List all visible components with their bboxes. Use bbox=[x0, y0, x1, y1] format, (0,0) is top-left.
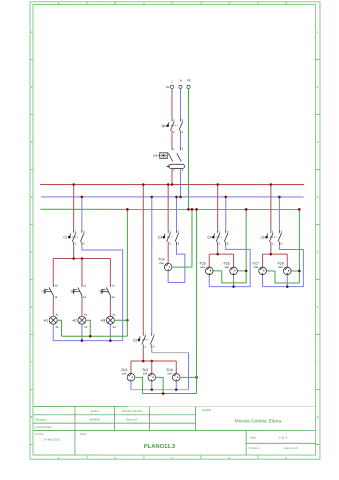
wire C3 to TC4 bbox=[167, 245, 169, 263]
junction N tap C4 bbox=[224, 196, 227, 199]
feed bar C5 group bbox=[263, 253, 288, 255]
junction L tap C5 bbox=[270, 183, 273, 186]
svg-text:Elena M.: Elena M. bbox=[126, 417, 138, 421]
svg-text:C5: C5 bbox=[261, 236, 265, 240]
junction C1 feed on bar bbox=[72, 257, 75, 260]
wire PE -H2 bbox=[86, 320, 90, 336]
wire PE bus down to TC group bbox=[196, 209, 198, 393]
socket outlet -TC7 bbox=[252, 262, 266, 275]
svg-text:Editado: Editado bbox=[202, 409, 212, 412]
junction N TC3 bbox=[175, 388, 178, 391]
svg-text:A: A bbox=[58, 1, 60, 5]
socket outlet -TC2 bbox=[141, 368, 155, 381]
junction PE tap TC4 bbox=[191, 208, 194, 211]
wire N right socket bbox=[286, 275, 288, 287]
lamp -H1 bbox=[43, 314, 59, 330]
wire N left socket bbox=[262, 275, 264, 287]
svg-text:PE: PE bbox=[187, 80, 191, 83]
junction PE tap C5 bbox=[298, 208, 301, 211]
wire bar to -S3 bbox=[109, 259, 111, 284]
switch C1 bbox=[63, 230, 85, 246]
wire L from terminal to Q1 bbox=[171, 88, 173, 118]
svg-text:16A: 16A bbox=[200, 266, 205, 269]
svg-text:Archivo:: Archivo: bbox=[249, 446, 260, 450]
switch Q1 bbox=[162, 118, 184, 134]
svg-text:B: B bbox=[114, 456, 116, 460]
svg-text:X1: X1 bbox=[113, 314, 117, 317]
lamp N collector bbox=[53, 340, 122, 342]
neutral bus N bbox=[41, 196, 304, 198]
svg-text:Morata Gomila, Elena: Morata Gomila, Elena bbox=[235, 419, 282, 425]
lamp -H2 bbox=[72, 314, 88, 330]
svg-text:X2: X2 bbox=[113, 326, 117, 329]
svg-text:2 de 3: 2 de 3 bbox=[279, 436, 287, 440]
junction N tap C1 bbox=[81, 196, 84, 199]
wire bar to -S1 bbox=[52, 259, 54, 284]
switch C3 bbox=[158, 230, 180, 246]
wire L bus to C2 bbox=[142, 185, 144, 333]
svg-text:16A: 16A bbox=[225, 266, 230, 269]
terminal strip -X1 (L N PE) bbox=[165, 80, 190, 90]
wire N -TC3 bbox=[175, 381, 177, 390]
wire N bus to C5 bbox=[278, 197, 280, 230]
svg-text:-TC1: -TC1 bbox=[120, 368, 127, 372]
wire N C4 return bbox=[209, 245, 250, 287]
svg-text:N: N bbox=[180, 80, 182, 83]
circuit breaker F2 bbox=[154, 147, 185, 172]
wire N bus to C2 bbox=[151, 197, 153, 333]
wire N -H3 to return bbox=[109, 324, 111, 340]
svg-text:plano 11.3: plano 11.3 bbox=[284, 446, 298, 450]
junction N right socket bbox=[286, 285, 289, 288]
wire bar to -TC1 bbox=[130, 361, 132, 374]
wire N bus to C3 bbox=[175, 197, 177, 230]
wire N C5 return bbox=[263, 245, 304, 287]
wire C4 to feed bar bbox=[217, 245, 219, 254]
wire PE right socket bbox=[237, 270, 246, 272]
wire N bus to C4 bbox=[225, 197, 227, 230]
socket outlet -TC4 bbox=[157, 258, 171, 271]
wire N -TC2 bbox=[151, 381, 153, 390]
svg-text:-S3: -S3 bbox=[98, 289, 103, 293]
wire C2 to socket feed bar bbox=[142, 348, 144, 361]
junction L tap C3 bbox=[167, 183, 170, 186]
switch C2 bbox=[133, 333, 155, 349]
lamp PE collector bbox=[62, 335, 128, 337]
junction PE tap C4 bbox=[245, 208, 248, 211]
wire N right socket bbox=[233, 275, 235, 287]
junction C5 feed bbox=[270, 253, 273, 256]
svg-text:Dibujado: Dibujado bbox=[35, 417, 47, 421]
wire PE -H3 bbox=[114, 319, 127, 321]
switch C5 bbox=[261, 230, 283, 246]
svg-text:Fecha: Fecha bbox=[35, 432, 43, 436]
PE bus bbox=[40, 208, 299, 210]
svg-text:X1: X1 bbox=[55, 314, 59, 317]
svg-text:C: C bbox=[171, 456, 173, 460]
wire N from terminal to Q1 bbox=[179, 88, 181, 118]
title block bbox=[33, 406, 316, 455]
feed bar C4 group bbox=[209, 253, 233, 255]
svg-text:C1: C1 bbox=[63, 236, 67, 240]
junction N TC2 bbox=[150, 388, 153, 391]
wire PE left socket bbox=[266, 270, 275, 272]
wire PE bus down bbox=[222, 209, 246, 283]
wire L bus to C3 bbox=[167, 185, 169, 230]
svg-text:-X1: -X1 bbox=[165, 86, 170, 89]
svg-text:16A: 16A bbox=[278, 266, 283, 269]
junction PE H3 on riser bbox=[126, 319, 129, 322]
wire PE TC4 bbox=[172, 209, 192, 267]
junction PE TC3 bbox=[195, 376, 198, 379]
junction L tap C2 bbox=[142, 183, 145, 186]
svg-text:-H3: -H3 bbox=[100, 318, 105, 322]
svg-text:Comprobado: Comprobado bbox=[35, 425, 52, 429]
wire bar to -TC3 bbox=[175, 361, 177, 374]
svg-text:16A: 16A bbox=[167, 372, 172, 375]
wire feed to left socket bbox=[262, 254, 264, 267]
svg-text:A: A bbox=[57, 456, 59, 460]
junction N tap C3 bbox=[175, 196, 178, 199]
socket feed bar TC1-TC3 bbox=[131, 360, 176, 362]
wire N Q1 to F2 bbox=[179, 134, 181, 147]
PE bottom collector TC group bbox=[143, 393, 197, 395]
svg-text:Título: Título bbox=[79, 432, 87, 436]
switch -S1 bbox=[41, 284, 58, 299]
junction PE right socket bbox=[298, 270, 301, 273]
wire N down right side bbox=[188, 353, 190, 390]
wire PE -H1 bbox=[57, 320, 61, 336]
wire N C3 to TC4 bbox=[168, 245, 185, 283]
svg-text:Nombre Firmas: Nombre Firmas bbox=[122, 409, 142, 413]
junction N H2 bbox=[81, 339, 84, 342]
svg-text:PLANO11.3: PLANO11.3 bbox=[144, 443, 176, 450]
socket outlet -TC1 bbox=[120, 368, 134, 381]
wire bar to -S2 bbox=[81, 259, 83, 284]
junction L tap C4 bbox=[216, 183, 219, 186]
svg-text:24/04/20: 24/04/20 bbox=[89, 417, 101, 421]
wire L F2 to phase bus bbox=[171, 169, 173, 185]
svg-text:-H2: -H2 bbox=[72, 318, 77, 322]
lamp -H3 bbox=[100, 314, 116, 330]
wire -S2 to -H2 bbox=[81, 299, 83, 316]
wire L bus to C1 bbox=[73, 185, 75, 230]
switch -S2 bbox=[70, 284, 87, 299]
svg-text:Núm:: Núm: bbox=[250, 436, 257, 440]
junction N tap C2 bbox=[150, 196, 153, 199]
svg-text:B: B bbox=[115, 1, 117, 5]
wire N -H2 to return bbox=[81, 324, 83, 340]
wire N -H1 to return bbox=[52, 324, 54, 340]
junction supply N on bus bbox=[179, 196, 182, 199]
svg-text:D: D bbox=[228, 1, 230, 5]
junction PE TC2 bottom bbox=[162, 392, 165, 395]
junction PE right socket bbox=[245, 270, 248, 273]
svg-text:16A: 16A bbox=[143, 372, 148, 375]
junction N H3 bbox=[109, 339, 112, 342]
wire N -TC1 bbox=[130, 381, 132, 390]
wire N bus to C1 bbox=[81, 197, 83, 230]
junction PE tap lamps bbox=[126, 208, 129, 211]
wire PE TC1 bbox=[135, 377, 143, 393]
wire feed to right socket bbox=[233, 254, 235, 267]
socket outlet -TC5 bbox=[199, 262, 213, 275]
svg-text:16A: 16A bbox=[254, 266, 259, 269]
svg-text:F2: F2 bbox=[154, 154, 158, 158]
lamp feed bar bbox=[53, 258, 110, 260]
svg-text:25A: 25A bbox=[159, 262, 164, 265]
svg-text:X1: X1 bbox=[84, 314, 88, 317]
wire L bus to C4 bbox=[217, 185, 219, 230]
wire N left socket bbox=[208, 275, 210, 287]
wire PE right socket bbox=[291, 270, 299, 272]
wire PE left socket bbox=[213, 270, 222, 272]
svg-text:-H1: -H1 bbox=[43, 318, 48, 322]
wire PE from terminal to PE bus bbox=[187, 88, 189, 209]
wire N link across (gray) bbox=[152, 352, 189, 354]
junction N tap C5 bbox=[278, 196, 281, 199]
wire L bus to C5 bbox=[270, 185, 272, 230]
svg-text:E: E bbox=[285, 456, 287, 460]
svg-text:X2: X2 bbox=[55, 326, 59, 329]
svg-text:16A: 16A bbox=[122, 372, 127, 375]
svg-text:C: C bbox=[171, 1, 173, 5]
wire L Q1 to F2 bbox=[171, 134, 173, 147]
wire bar to -TC2 bbox=[151, 361, 153, 374]
wire feed to right socket bbox=[286, 254, 288, 267]
junction supply L on bus bbox=[171, 183, 174, 186]
junction L tap C1 bbox=[72, 183, 75, 186]
wire N C1 to lamp return bbox=[82, 245, 123, 341]
svg-text:-TC4: -TC4 bbox=[157, 258, 164, 262]
wire C1 to lamp feed bar bbox=[73, 245, 75, 259]
svg-text:C2: C2 bbox=[133, 338, 137, 342]
svg-text:Q1: Q1 bbox=[162, 124, 166, 128]
junction branch H2 on bar bbox=[81, 257, 84, 260]
switch -S3 bbox=[98, 284, 115, 299]
N bottom bar TC group (gray) bbox=[131, 389, 189, 391]
junction TC2 feed on bar bbox=[150, 360, 153, 363]
junction C2 feed on bar bbox=[142, 360, 145, 363]
svg-text:D: D bbox=[228, 456, 230, 460]
svg-text:24-Apr-2020: 24-Apr-2020 bbox=[43, 438, 59, 442]
junction C4 feed bbox=[216, 253, 219, 256]
wire PE collector to PE bus bbox=[126, 209, 128, 336]
wire N F2 to neutral bus bbox=[179, 169, 181, 197]
svg-text:C4: C4 bbox=[207, 236, 211, 240]
socket outlet -TC6 bbox=[223, 262, 237, 275]
junction PE tap TC group bbox=[195, 208, 198, 211]
svg-text:-TC2: -TC2 bbox=[141, 368, 148, 372]
wire N C2 down bbox=[151, 348, 153, 353]
svg-text:Fecha: Fecha bbox=[91, 409, 99, 413]
svg-text:X2: X2 bbox=[84, 326, 88, 329]
wire PE TC2 bbox=[156, 377, 164, 393]
svg-text:-TC3: -TC3 bbox=[166, 368, 173, 372]
svg-text:E: E bbox=[286, 1, 288, 5]
junction PE H2 bbox=[89, 335, 92, 338]
junction N right socket bbox=[232, 285, 235, 288]
wire feed to left socket bbox=[208, 254, 210, 267]
svg-text:-S2: -S2 bbox=[70, 289, 75, 293]
wire PE bus down bbox=[275, 209, 299, 283]
switch C4 bbox=[207, 230, 229, 246]
socket outlet -TC8 bbox=[277, 262, 291, 275]
socket outlet -TC3 bbox=[166, 368, 180, 381]
phase bus L bbox=[40, 184, 304, 186]
svg-text:-S1: -S1 bbox=[41, 289, 46, 293]
wire -S3 to -H3 bbox=[109, 299, 111, 316]
svg-text:-TC7: -TC7 bbox=[252, 262, 259, 266]
wire -S1 to -H1 bbox=[52, 299, 54, 316]
wire PE TC3 bbox=[180, 376, 197, 378]
svg-text:-TC6: -TC6 bbox=[223, 262, 230, 266]
svg-text:C3: C3 bbox=[158, 236, 162, 240]
junction supply PE on bus bbox=[187, 208, 190, 211]
wire C5 to feed bar bbox=[270, 245, 272, 254]
